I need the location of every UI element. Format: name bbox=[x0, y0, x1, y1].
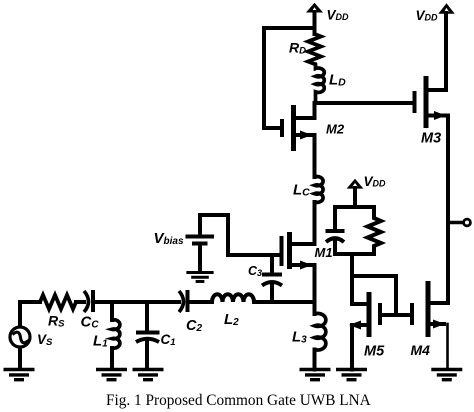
svg-text:C3: C3 bbox=[248, 264, 262, 278]
svg-text:LD: LD bbox=[329, 72, 346, 89]
svg-text:Vbias: Vbias bbox=[154, 230, 184, 247]
svg-text:M5: M5 bbox=[364, 344, 385, 360]
svg-text:VS: VS bbox=[37, 332, 53, 348]
svg-text:RS: RS bbox=[48, 313, 65, 330]
svg-text:C2: C2 bbox=[186, 318, 202, 334]
svg-text:C1: C1 bbox=[161, 332, 176, 348]
svg-text:M4: M4 bbox=[411, 342, 431, 358]
svg-text:M2: M2 bbox=[326, 122, 345, 137]
svg-text:LC: LC bbox=[293, 182, 310, 199]
svg-text:RD: RD bbox=[289, 40, 306, 57]
svg-text:CC: CC bbox=[81, 314, 100, 331]
svg-text:L1: L1 bbox=[93, 333, 108, 350]
svg-text:VDD: VDD bbox=[364, 174, 387, 189]
svg-text:L3: L3 bbox=[292, 329, 307, 346]
svg-text:M1: M1 bbox=[315, 245, 333, 260]
svg-text:L2: L2 bbox=[224, 311, 239, 328]
svg-text:M3: M3 bbox=[421, 131, 441, 147]
svg-text:VDD: VDD bbox=[327, 8, 350, 23]
svg-text:VDD: VDD bbox=[416, 8, 439, 23]
